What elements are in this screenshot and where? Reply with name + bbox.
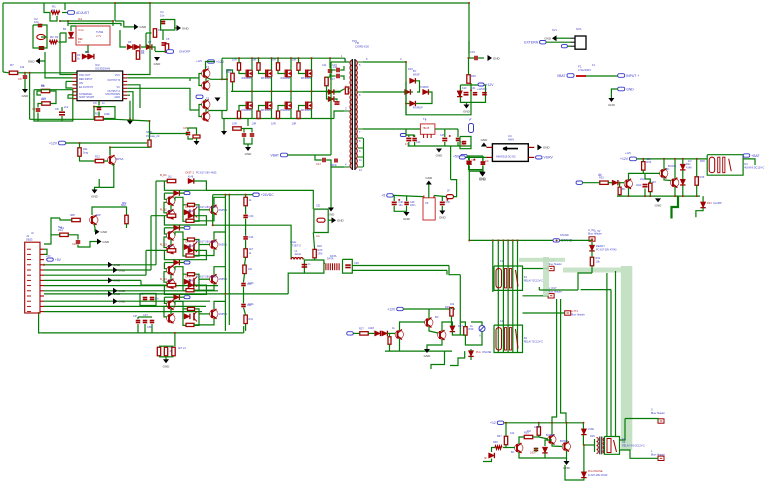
resistor R19 <box>345 87 348 94</box>
resistor R34 <box>642 157 652 170</box>
svg-text:R36: R36 <box>700 175 705 179</box>
header JP7 <box>651 449 665 461</box>
svg-text:RED INPUT: RED INPUT <box>79 78 93 81</box>
wire fb inner3 <box>38 104 42 108</box>
gnd GND3 <box>28 58 40 64</box>
wire gnd7 w <box>95 187 100 189</box>
highlight band v1 <box>621 266 633 450</box>
svg-text:10R: 10R <box>232 122 237 126</box>
wire conn pin2 stub <box>44 249 47 254</box>
transformer TR1 core <box>352 41 369 170</box>
wire col w2 <box>245 206 247 214</box>
wire q1 e <box>99 164 114 187</box>
wire mos bot col 4 <box>299 106 306 112</box>
net flag +12V a <box>49 141 66 145</box>
wire fb inner2 <box>50 91 56 104</box>
wire cell2 loop <box>164 216 206 225</box>
wire cell1 w9 <box>214 197 225 205</box>
resistor R40 <box>534 426 541 435</box>
mosfet QB1 <box>242 102 253 113</box>
wire tr snub w4 <box>340 76 344 80</box>
transistor Q15 <box>562 442 570 452</box>
wire snub w5 <box>327 92 329 99</box>
wire snub w6 <box>334 99 337 101</box>
transistor QD2b <box>167 244 175 254</box>
svg-text:IRFZ44N: IRFZ44N <box>281 109 291 112</box>
svg-text:R4: R4 <box>158 28 162 32</box>
wire cells vert 3 <box>155 181 157 265</box>
gnd GND21 <box>537 144 550 150</box>
resistor R25 <box>164 345 175 356</box>
svg-text:V: V <box>479 334 481 338</box>
wire c4 gnd stub <box>175 27 177 29</box>
wire cell2 w7 <box>175 232 183 240</box>
wire mos bot col 1 <box>239 106 246 112</box>
svg-text:C37: C37 <box>143 313 148 317</box>
wire bank top rail <box>222 57 345 59</box>
wire bank mid to tap <box>340 89 344 91</box>
svg-text:TR1: TR1 <box>352 39 357 43</box>
wire pair drop2 <box>446 270 448 274</box>
wire k3 w14 <box>663 159 665 170</box>
transistor QD4b <box>167 313 175 323</box>
wire vert net1 <box>59 33 61 61</box>
diode DD2b <box>174 225 180 230</box>
capacitor C8 <box>55 107 65 115</box>
wire bB w1 <box>353 332 360 334</box>
wire r11 down <box>80 156 96 161</box>
gnd GND24 <box>608 98 616 107</box>
wire U2 wires <box>71 26 76 31</box>
wire cell3 w8 <box>199 278 210 280</box>
wire cell3 w4 <box>164 263 167 269</box>
resistor R1 1k <box>51 5 60 15</box>
capacitor C50 <box>440 199 451 205</box>
varistor RV1 <box>479 326 485 338</box>
svg-text:U_5V: U_5V <box>594 229 601 233</box>
wire pair drop <box>449 266 460 275</box>
svg-text:MM: MM <box>122 201 126 205</box>
svg-text:10R: 10R <box>232 58 237 62</box>
gnd GND27 <box>655 198 663 207</box>
wire clus w3 <box>244 138 252 145</box>
gnd GND25 <box>163 359 171 368</box>
wire mos bot col 2c <box>271 91 273 102</box>
wire ic gnd loop <box>93 107 95 120</box>
capacitor C11 <box>328 65 338 72</box>
resistor R10 <box>95 112 104 121</box>
svg-text:GND: GND <box>119 268 127 272</box>
wire bus row 3 <box>44 274 146 276</box>
wire r14 loop <box>51 218 60 235</box>
svg-text:R37: R37 <box>497 435 502 438</box>
net flag INPUT+ <box>618 74 640 78</box>
svg-text:+12V: +12V <box>625 151 631 155</box>
svg-text:BC: BC <box>622 188 626 191</box>
svg-text:4148: 4148 <box>368 326 374 330</box>
wire gnd3 wire <box>40 52 45 61</box>
wire r13 left <box>60 218 72 220</box>
svg-text:GND: GND <box>103 240 111 244</box>
wire bus row 1 <box>44 264 156 266</box>
gnd bus arrow 3 <box>108 277 121 283</box>
wire trio top <box>159 345 174 347</box>
wire 5v w3 <box>482 156 484 161</box>
wire bottom long rail <box>40 332 243 334</box>
wire bB w12 <box>427 339 442 349</box>
gnd GND6 <box>127 121 133 125</box>
svg-text:+5: +5 <box>381 194 385 198</box>
wire cells vert 5 <box>145 250 147 275</box>
optocoupler OK4 <box>183 307 199 325</box>
wire tr left vert <box>330 62 332 155</box>
wire k4 coil w2 <box>594 439 596 452</box>
wire jp3 w2 <box>523 295 540 297</box>
mosfet QB2 <box>261 102 272 113</box>
wire reg gnd rail <box>408 145 471 147</box>
wire vert29 <box>29 73 31 120</box>
diode D8 <box>328 89 334 94</box>
wire cell3 loop <box>164 250 206 259</box>
wire mos top col 2 <box>258 58 260 63</box>
svg-text:10k: 10k <box>647 157 652 161</box>
diode D7 <box>146 44 152 49</box>
wire cell2 w8 <box>199 244 210 246</box>
svg-text:IC-827-280 47040: IC-827-280 47040 <box>588 474 608 477</box>
wire r16 w <box>227 70 233 79</box>
wire loop line2 <box>68 24 121 27</box>
svg-text:220k: 220k <box>104 112 110 116</box>
wire k4 w17 <box>545 440 552 446</box>
wire outB net <box>127 77 196 79</box>
wire pp feed <box>206 62 215 70</box>
wire mos top col 4c <box>311 58 313 70</box>
svg-text:2N5551: 2N5551 <box>219 209 228 212</box>
net flag F3 <box>184 261 190 264</box>
wire ic in 2 <box>45 61 73 78</box>
wire clus w2 <box>241 129 244 133</box>
wire k3 w18 <box>682 159 684 164</box>
connector J1 <box>25 234 44 313</box>
resistor R31 <box>590 256 601 266</box>
wire ready w6 <box>610 290 612 437</box>
gnd GND13 <box>328 208 336 217</box>
wire vcc net <box>115 3 150 75</box>
svg-text:22uF: 22uF <box>636 184 642 187</box>
wire k3 rail2 <box>617 195 700 197</box>
svg-text:10R: 10R <box>271 122 276 126</box>
gnd GND19b <box>439 211 447 220</box>
wire cell4 in <box>141 284 167 286</box>
wire 5v w4 <box>469 155 483 157</box>
gnd bus arrow 4 <box>113 288 126 294</box>
resistor RD1b <box>186 219 194 222</box>
svg-text:GND: GND <box>91 195 99 199</box>
wire k4 w15 <box>536 451 567 459</box>
svg-text:GND: GND <box>626 87 634 91</box>
wire u4 w1 <box>465 156 486 158</box>
wire bB rail <box>403 308 455 310</box>
net flag u4in <box>459 156 465 159</box>
wire clB reg gnd <box>428 185 430 198</box>
wire pp out <box>209 78 228 81</box>
wire trio bot <box>159 356 174 358</box>
gnd GND26 <box>424 349 432 358</box>
wire col w9 <box>245 324 247 331</box>
diode D26 <box>581 428 594 435</box>
transistor QD3a <box>167 265 175 275</box>
resistor R30 <box>464 327 474 336</box>
wire bB w13 <box>442 322 452 331</box>
wire cell1 w4 <box>164 193 167 199</box>
wire k4 w5 <box>506 447 515 449</box>
wire ic bottom stub <box>98 101 100 106</box>
svg-text:C33: C33 <box>249 214 254 218</box>
resistor RD2a <box>167 211 176 217</box>
svg-text:1M: 1M <box>527 429 531 433</box>
wire a_out down <box>552 299 557 423</box>
capacitor C17 <box>316 158 325 166</box>
wire conn bottom drop <box>39 313 41 333</box>
transistor QD1b <box>167 209 175 219</box>
wire tr snub w2 <box>340 66 344 70</box>
wire cell4 w8 <box>199 313 210 315</box>
resistor R9 <box>41 97 50 105</box>
gnd GND15 <box>463 105 471 114</box>
capacitor C38 <box>143 321 148 323</box>
transistor Q1 <box>108 155 124 165</box>
label DIST2 <box>185 205 217 209</box>
transistor QD1a <box>167 196 175 206</box>
svg-text:C17: C17 <box>316 162 321 166</box>
capacitor C13 <box>242 134 247 136</box>
gnd GND2 <box>154 57 162 66</box>
wire mid bus <box>60 21 113 26</box>
capacitor C39 <box>147 321 154 330</box>
relay K3 <box>707 155 764 176</box>
diode D27 <box>581 470 608 478</box>
wire bB w18 <box>431 351 445 369</box>
capacitor C15 <box>332 63 339 72</box>
net flag +12VF <box>478 83 494 87</box>
wire tr left down <box>330 167 332 208</box>
wire r11 col <box>109 147 111 155</box>
wire r16 w2 <box>232 82 234 92</box>
wire ready w4 <box>578 273 592 290</box>
svg-text:GND: GND <box>22 94 30 98</box>
wire k4 w22 <box>583 445 585 472</box>
wire top border <box>3 2 115 4</box>
diode DD2a <box>188 211 194 218</box>
wire clB loop <box>393 195 395 201</box>
svg-text:100n: 100n <box>248 281 254 285</box>
wire bus row 4 <box>44 279 141 281</box>
svg-text:46P: 46P <box>96 213 101 217</box>
svg-text:22k: 22k <box>42 97 47 101</box>
resistor R35 <box>649 183 652 192</box>
wire vert130 <box>129 101 131 119</box>
wire cell1 w2 <box>164 192 173 194</box>
wire mos bot col 2d <box>271 109 273 119</box>
u4 green box <box>460 137 471 149</box>
svg-text:S: S <box>651 408 653 412</box>
wire cell4 w4 <box>164 297 167 303</box>
wire cell4 w10 <box>194 318 214 325</box>
wire bB rail2 <box>385 350 452 352</box>
wire reg w7 <box>444 129 446 137</box>
wire mos top col 4b <box>299 70 306 73</box>
resistor R4 <box>153 28 162 37</box>
wire cell3 w7 <box>175 267 183 275</box>
wire ready w7 <box>606 273 608 437</box>
svg-text:C11: C11 <box>322 63 327 67</box>
wire bus vert 3 <box>502 240 504 352</box>
wire bus row 6 <box>44 290 218 292</box>
svg-text:GND: GND <box>114 96 120 99</box>
svg-text:R23: R23 <box>318 248 323 252</box>
svg-text:C51: C51 <box>316 205 321 208</box>
wire r13 r14 join <box>68 235 78 240</box>
svg-text:SOFT START: SOFT START <box>79 96 95 99</box>
wire cell3 w9 <box>214 267 225 275</box>
transistor Q3 <box>202 69 210 79</box>
svg-text:+12V: +12V <box>49 141 58 145</box>
wire clB rail <box>393 195 423 196</box>
net flag GND tr <box>618 87 635 91</box>
wire bB w9 <box>451 308 453 309</box>
svg-text:R38: R38 <box>493 441 498 444</box>
svg-text:PLA: PLA <box>476 351 481 354</box>
transistor Q13 <box>511 443 523 454</box>
wire c45 w <box>188 136 193 139</box>
svg-text:R_D4: R_D4 <box>160 277 167 281</box>
wire sec top right <box>468 41 470 58</box>
wire bB w17 <box>471 322 482 326</box>
capacitor C21 100n <box>471 87 477 95</box>
wire k4 w20 <box>582 423 584 429</box>
svg-text:100n: 100n <box>530 452 536 455</box>
resistor R32 <box>599 173 608 185</box>
wire k4 w21 <box>582 435 584 445</box>
capacitor C12 <box>335 102 340 104</box>
wire sec low vert <box>363 138 365 167</box>
wire pp base bar2 <box>199 105 202 117</box>
capacitor C16 <box>337 74 339 79</box>
wire rect w1 <box>416 81 420 92</box>
diode D22 <box>680 179 685 185</box>
gnd bus arrow 5 <box>108 291 121 297</box>
svg-text:4148: 4148 <box>188 177 194 179</box>
svg-text:C45: C45 <box>183 127 188 130</box>
wire vert 469 <box>468 3 470 54</box>
svg-text:VCC: VCC <box>115 74 120 77</box>
header JP3 <box>548 286 562 298</box>
resistor R37 <box>497 435 508 445</box>
wire k4 w3 <box>492 448 496 453</box>
IC U2 <box>76 26 110 45</box>
svg-text:K1: K1 <box>524 275 528 279</box>
optocoupler OK3 <box>183 273 199 291</box>
gnd GND29 <box>194 141 200 145</box>
svg-text:C4: C4 <box>160 10 164 14</box>
wire mos top col 3b <box>278 70 285 73</box>
net flag F4 <box>184 296 190 299</box>
svg-text:4k7: 4k7 <box>249 247 254 251</box>
wire r12 base <box>104 160 108 162</box>
wire snub w3 <box>327 86 329 92</box>
wire upper right net <box>114 3 116 21</box>
diode D12 <box>419 86 429 95</box>
wire k4 w12 <box>551 423 553 436</box>
wire cell1 w3 <box>179 192 184 194</box>
svg-text:C10: C10 <box>72 242 77 246</box>
svg-text:DATA: DATA <box>330 254 337 258</box>
svg-text:GND: GND <box>114 263 122 267</box>
wire clus drop <box>247 119 249 127</box>
svg-text:VSRV: VSRV <box>544 156 554 160</box>
svg-text:R7: R7 <box>10 63 14 67</box>
wire cell2 w6 <box>170 240 172 246</box>
svg-text:Blue Header: Blue Header <box>651 453 665 456</box>
svg-text:1R0: 1R0 <box>317 244 322 248</box>
wire mos top col 3 <box>277 58 279 63</box>
wire cell3 w10 <box>194 284 214 291</box>
wire cells vert 6 <box>140 280 142 285</box>
svg-text:10u: 10u <box>399 204 404 207</box>
transformer TR1 primary <box>350 61 352 169</box>
wire c45 up <box>188 128 197 135</box>
wire mos bot col 2 <box>259 106 266 112</box>
svg-text:46P: 46P <box>70 213 75 217</box>
svg-text:R41: R41 <box>249 318 254 321</box>
svg-text:PC-817-28V 4N35: PC-817-28V 4N35 <box>196 241 217 244</box>
wire k3 w5 <box>619 195 621 196</box>
svg-text:4148: 4148 <box>188 211 194 213</box>
wire clB w6 <box>441 206 443 211</box>
wire bB w3 <box>387 332 395 334</box>
svg-text:C20: C20 <box>462 87 467 90</box>
svg-text:IN: IN <box>78 41 81 44</box>
wire pp base in2 <box>197 109 200 111</box>
wire cell4 w7 <box>175 301 183 309</box>
svg-text:DIST-1: DIST-1 <box>185 170 194 174</box>
wire bB w20 <box>470 349 472 351</box>
wire gnd12 w <box>223 119 225 132</box>
wire k4 w9 <box>538 435 540 437</box>
wire clus w <box>244 129 252 133</box>
wire cell1 loop <box>164 181 206 190</box>
wire r20 up <box>469 58 475 75</box>
header JP6 <box>651 408 665 424</box>
mosfet QT2 <box>261 70 272 81</box>
wire clB loop2 <box>394 206 406 212</box>
net flag +5V b <box>453 154 467 158</box>
svg-text:C5: C5 <box>166 37 170 41</box>
wire 24v drop <box>213 195 291 259</box>
wire ready w1 <box>591 242 593 245</box>
wire mos top col 2b <box>259 70 266 73</box>
wire bus row 10 <box>44 311 202 313</box>
wire row72 <box>3 71 9 74</box>
wire fuse down <box>110 147 150 156</box>
wire vert into k4 b <box>615 271 617 437</box>
wire k3 w11 <box>644 189 646 197</box>
svg-text:GND: GND <box>182 26 190 30</box>
resistor R21 <box>446 190 453 199</box>
gnd GND9 <box>97 239 110 245</box>
wire vc net <box>127 85 140 108</box>
svg-text:CLAMP: CLAMP <box>713 202 722 205</box>
